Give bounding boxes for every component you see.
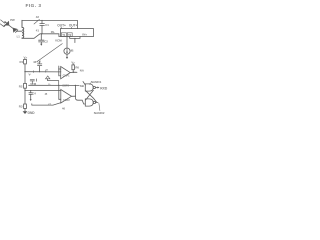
svg-text:45: 45 xyxy=(45,93,48,96)
wire NB to NAND2 xyxy=(75,85,85,104)
circuit schematic FIG. 3 xyxy=(0,0,110,120)
svg-text:V+: V+ xyxy=(71,60,75,64)
wire rail2 xyxy=(22,34,60,39)
output wire xyxy=(72,95,76,97)
label NAND2 xyxy=(99,103,100,110)
svg-text:R3: R3 xyxy=(19,105,23,109)
resistor R3 xyxy=(24,104,27,109)
pin box T2 xyxy=(67,33,72,37)
svg-text:PW: PW xyxy=(10,18,15,22)
wire NA to NAND1 xyxy=(83,82,85,86)
wire to coil xyxy=(17,30,22,32)
svg-text:V-: V- xyxy=(48,82,51,86)
nand gate NAND2 xyxy=(85,99,93,106)
nand gate NAND1 xyxy=(85,84,93,91)
wire xyxy=(24,88,26,104)
wire cross A xyxy=(86,91,97,102)
capacitor C4 xyxy=(29,91,33,100)
node 42 leader xyxy=(34,19,40,24)
output wire xyxy=(70,71,77,73)
amplifier block U1 xyxy=(60,29,93,37)
svg-text:IN-: IN- xyxy=(51,30,55,34)
wire rail1 xyxy=(22,20,77,28)
svg-text:NA: NA xyxy=(80,69,84,73)
svg-text:46: 46 xyxy=(62,107,65,111)
svg-text:43: 43 xyxy=(33,60,37,64)
resistor R6 xyxy=(72,70,74,73)
wire cross B xyxy=(86,90,94,100)
svg-text:IN+: IN+ xyxy=(82,32,87,36)
output wire xyxy=(96,102,98,104)
wire node 47 to CMP2 input xyxy=(32,103,61,105)
svg-text:C4: C4 xyxy=(33,93,37,96)
node junction VCM line x bus xyxy=(58,85,59,86)
pin box T1 xyxy=(61,33,66,37)
resistor R1 xyxy=(24,58,26,61)
svg-text:OUT+: OUT+ xyxy=(57,24,66,28)
wire diode1 to diode2 xyxy=(9,25,13,28)
node tap2 xyxy=(24,90,25,91)
pin stubs xyxy=(61,27,71,28)
svg-text:V-: V- xyxy=(29,73,32,77)
svg-text:42: 42 xyxy=(36,15,40,19)
svg-text:CMP2: CMP2 xyxy=(63,99,70,102)
svg-text:CMP1: CMP1 xyxy=(63,75,71,78)
capacitor C2 xyxy=(39,34,44,44)
svg-text:41: 41 xyxy=(36,29,40,33)
svg-text:OUT+: OUT+ xyxy=(69,24,78,28)
diode D1 xyxy=(5,22,9,26)
signal bus xyxy=(58,66,60,76)
photodiode input arrows xyxy=(0,20,6,27)
svg-text:NB: NB xyxy=(80,84,84,88)
svg-text:47: 47 xyxy=(48,102,51,106)
current source I1 xyxy=(66,37,68,48)
svg-text:L1: L1 xyxy=(17,35,21,39)
diode D2 xyxy=(13,28,17,32)
svg-text:IB: IB xyxy=(71,49,74,53)
wire xyxy=(24,64,26,84)
comparator CMP1 xyxy=(61,67,70,79)
wire T2 pin U-link xyxy=(70,37,80,39)
node 43 leader xyxy=(37,44,63,62)
capacitor C5 xyxy=(30,79,36,84)
svg-text:V+: V+ xyxy=(24,56,28,60)
inductor L1 xyxy=(22,20,24,38)
tick marks xyxy=(34,70,46,72)
svg-text:CMP2: CMP2 xyxy=(62,84,69,87)
comparator CMP2 xyxy=(61,90,72,104)
wire xyxy=(24,109,26,112)
svg-text:NAND2: NAND2 xyxy=(94,111,105,115)
svg-text:VCM: VCM xyxy=(30,82,37,86)
svg-text:R2: R2 xyxy=(19,85,23,89)
capacitor C1 xyxy=(41,20,42,21)
wire tap1 to CMP1 xyxy=(25,71,61,73)
svg-text:R1: R1 xyxy=(20,60,24,64)
svg-text:V1: V1 xyxy=(46,70,49,72)
svg-text:VCM: VCM xyxy=(55,38,62,42)
resistor R2 xyxy=(24,83,27,88)
node tap1 xyxy=(24,71,25,72)
svg-text:T1: T1 xyxy=(62,33,66,37)
svg-text:FIG. 3: FIG. 3 xyxy=(26,3,42,8)
svg-text:GND: GND xyxy=(28,111,36,115)
wire tap2 to CMP2 xyxy=(25,90,61,92)
svg-text:RXD: RXD xyxy=(100,86,108,90)
svg-text:NAND1: NAND1 xyxy=(91,80,102,84)
svg-text:C2: C2 xyxy=(44,39,48,43)
svg-text:C3: C3 xyxy=(37,59,41,63)
svg-text:C1: C1 xyxy=(45,23,49,27)
wiper arrow node xyxy=(48,81,59,86)
node C4 xyxy=(30,90,31,91)
output RXD xyxy=(96,87,98,89)
wire VCM line xyxy=(29,84,75,86)
capacitor C3 xyxy=(39,71,40,72)
ground xyxy=(23,111,28,114)
